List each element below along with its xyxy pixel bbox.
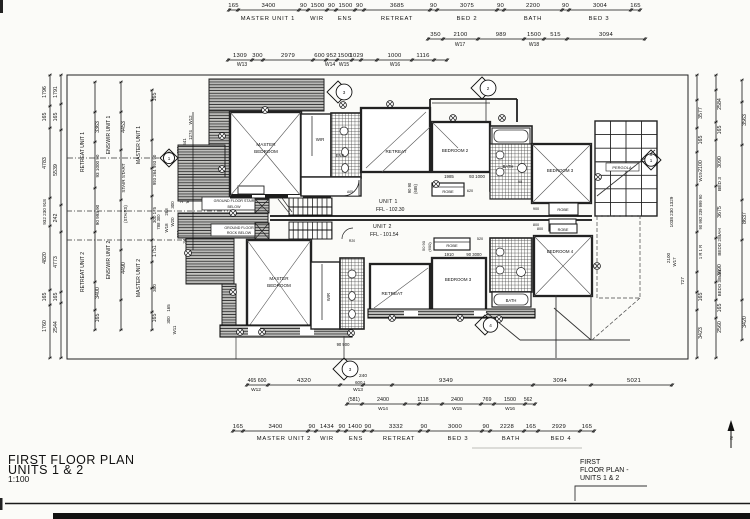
svg-text:BEDROOM: BEDROOM <box>254 149 278 154</box>
svg-text:FFL - 101.54: FFL - 101.54 <box>370 232 399 238</box>
svg-text:952: 952 <box>326 53 337 59</box>
svg-text:FIRST: FIRST <box>580 459 601 466</box>
symbol diamond 2 top <box>471 77 493 99</box>
svg-text:1309: 1309 <box>233 53 247 59</box>
stairwell upper run <box>289 198 332 215</box>
svg-text:288: 288 <box>164 208 169 216</box>
left dim line A <box>49 75 51 358</box>
svg-text:4783: 4783 <box>42 157 48 169</box>
hatch block A (left of master 1) <box>178 145 225 177</box>
svg-text:3094: 3094 <box>599 32 614 38</box>
svg-text:BEDROOM 3: BEDROOM 3 <box>547 168 574 173</box>
svg-text:MASTER: MASTER <box>256 142 276 147</box>
svg-text:165: 165 <box>53 113 59 122</box>
svg-text:90 993 90: 90 993 90 <box>95 204 100 225</box>
svg-text:165: 165 <box>42 293 48 302</box>
svg-text:RETREAT UNIT 2: RETREAT UNIT 2 <box>80 252 86 292</box>
svg-text:BATH: BATH <box>503 164 514 169</box>
site boundary <box>67 75 688 359</box>
room master bedroom 2 <box>247 240 311 329</box>
svg-text:FLOOR PLAN -: FLOOR PLAN - <box>580 467 629 474</box>
svg-text:(685): (685) <box>413 184 418 194</box>
dimension row top 1 <box>229 9 640 11</box>
svg-text:W12: W12 <box>251 387 261 393</box>
robe master1 <box>238 186 264 194</box>
room bed 2 <box>432 122 490 172</box>
right dim line A <box>696 75 698 358</box>
svg-text:N: N <box>729 436 734 439</box>
svg-text:W18: W18 <box>529 42 540 48</box>
svg-text:165: 165 <box>526 424 537 430</box>
svg-text:STAIR START: STAIR START <box>121 163 126 192</box>
svg-text:ROBE: ROBE <box>557 207 569 212</box>
svg-text:5021: 5021 <box>627 378 641 384</box>
svg-text:90: 90 <box>300 3 308 9</box>
svg-text:989: 989 <box>496 32 507 38</box>
robe unit2 <box>434 238 470 250</box>
svg-text:90: 90 <box>562 3 570 9</box>
svg-text:993 264 993 90: 993 264 993 90 <box>152 154 157 185</box>
svg-text:2100: 2100 <box>698 160 704 172</box>
svg-text:BEDROOM 3: BEDROOM 3 <box>445 277 472 282</box>
svg-text:BED 3: BED 3 <box>448 436 469 442</box>
svg-text:2: 2 <box>487 86 490 91</box>
room ENS 2 (tiled) <box>340 258 364 329</box>
svg-text:PERGOLA: PERGOLA <box>612 165 632 170</box>
svg-text:932 230 918: 932 230 918 <box>42 199 47 225</box>
pergola leader + symbol A1 <box>595 161 641 163</box>
svg-text:W17: W17 <box>672 257 677 267</box>
svg-text:1038 230 1329: 1038 230 1329 <box>669 196 674 227</box>
left dim line D <box>120 82 122 330</box>
pergola diagonal roof line <box>597 150 655 196</box>
svg-text:769: 769 <box>483 397 492 403</box>
svg-text:ENS: ENS <box>349 436 363 442</box>
svg-text:W12: W12 <box>188 115 193 125</box>
right dim line B <box>715 75 717 358</box>
bottom rule <box>5 503 750 505</box>
boundary dashed setback lines <box>67 210 228 212</box>
svg-text:3400: 3400 <box>261 3 276 9</box>
svg-text:2584: 2584 <box>717 98 723 110</box>
room WIR 1 <box>301 114 331 177</box>
left dim line E <box>151 90 153 330</box>
dimension row bottom 2 <box>347 403 535 405</box>
dimension row top 2 <box>428 38 645 40</box>
svg-text:4: 4 <box>489 323 492 328</box>
svg-text:90: 90 <box>497 3 505 9</box>
svg-text:90 90: 90 90 <box>407 182 412 193</box>
svg-text:1 R 1 R: 1 R 1 R <box>698 245 703 259</box>
dimension row bottom 1 <box>247 384 672 386</box>
svg-text:ENS/WIR UNIT 1: ENS/WIR UNIT 1 <box>106 116 112 155</box>
dimension row top 3 <box>228 59 447 61</box>
svg-text:165: 165 <box>233 424 244 430</box>
svg-text:90 992 239 999 90: 90 992 239 999 90 <box>698 194 703 230</box>
svg-text:1400: 1400 <box>348 424 363 430</box>
svg-text:(STAIRS): (STAIRS) <box>123 205 128 223</box>
svg-text:WIR: WIR <box>310 16 324 22</box>
symbol diamond CD4 <box>475 315 495 335</box>
svg-text:240: 240 <box>359 373 367 379</box>
room bath 1 (tiled) <box>490 126 532 191</box>
svg-text:90 3000: 90 3000 <box>466 252 482 257</box>
svg-text:165: 165 <box>630 3 641 9</box>
svg-text:W17: W17 <box>455 42 466 48</box>
svg-text:1985: 1985 <box>444 174 454 179</box>
svg-text:165: 165 <box>698 293 704 302</box>
svg-text:1500: 1500 <box>310 3 325 9</box>
svg-text:3075: 3075 <box>460 3 475 9</box>
svg-text:300: 300 <box>252 53 263 59</box>
left dim line B <box>60 75 62 358</box>
svg-text:50 90: 50 90 <box>421 240 426 251</box>
svg-text:W13: W13 <box>353 387 363 393</box>
svg-text:3420: 3420 <box>742 316 748 328</box>
svg-text:1791: 1791 <box>53 86 59 98</box>
svg-text:BATH: BATH <box>524 16 542 22</box>
svg-text:300: 300 <box>166 316 171 324</box>
svg-text:93 1000 90: 93 1000 90 <box>95 154 100 177</box>
robe boxes mid right <box>549 203 578 215</box>
hatch block C (below) <box>178 213 268 238</box>
svg-text:RETREAT: RETREAT <box>383 436 415 442</box>
svg-text:3675: 3675 <box>717 206 723 218</box>
svg-text:242: 242 <box>53 214 59 223</box>
room ENS 1 (tiled) <box>331 113 361 178</box>
svg-text:562: 562 <box>524 397 533 403</box>
unit2 south wall right part <box>368 309 535 318</box>
svg-text:1: 1 <box>650 158 653 163</box>
room retreat 2 <box>370 264 430 312</box>
svg-text:BED 3: BED 3 <box>717 177 723 191</box>
room bed 3 <box>532 144 591 203</box>
svg-text:UNIT 1: UNIT 1 <box>379 199 398 205</box>
svg-text:4773: 4773 <box>53 256 59 268</box>
svg-text:BED 3: BED 3 <box>589 16 610 22</box>
svg-text:300: 300 <box>170 201 175 209</box>
svg-text:RETREAT: RETREAT <box>381 16 413 22</box>
svg-text:165: 165 <box>698 136 704 145</box>
svg-text:90: 90 <box>356 3 364 9</box>
svg-text:3400: 3400 <box>95 287 101 299</box>
svg-text:1500: 1500 <box>527 32 542 38</box>
room master bedroom 1 <box>230 112 301 196</box>
robe 1 <box>432 183 464 196</box>
svg-text:9349: 9349 <box>439 378 453 384</box>
bottom black bar <box>53 513 750 519</box>
svg-text:UNIT 2: UNIT 2 <box>373 224 392 230</box>
svg-text:GROUND FLOOR STAIR: GROUND FLOOR STAIR <box>214 199 255 203</box>
room bed 4 <box>534 236 592 296</box>
svg-text:90: 90 <box>420 424 428 430</box>
svg-text:ENS: ENS <box>336 153 345 158</box>
pergola grid <box>595 121 657 216</box>
dashed roof outline right of bed4 <box>597 216 640 298</box>
svg-text:165: 165 <box>95 314 101 323</box>
svg-text:5539: 5539 <box>53 164 59 176</box>
svg-text:600: 600 <box>314 53 325 59</box>
svg-text:1434: 1434 <box>320 424 335 430</box>
hatch strip unit2 wall <box>222 284 236 330</box>
svg-text:4453: 4453 <box>121 121 127 133</box>
svg-text:W20: W20 <box>170 217 175 227</box>
left dim line C <box>94 82 96 330</box>
svg-text:800: 800 <box>537 227 543 231</box>
symbol diamond 3 top <box>327 81 349 103</box>
svg-text:1796: 1796 <box>42 86 48 98</box>
svg-text:3400: 3400 <box>268 424 283 430</box>
svg-text:2100: 2100 <box>666 252 671 263</box>
svg-text:350: 350 <box>430 32 441 38</box>
leader line to diamond A1 <box>67 157 159 159</box>
svg-text:90: 90 <box>482 424 490 430</box>
hall unit 1 with door <box>301 177 361 196</box>
svg-text:90: 90 <box>518 180 522 184</box>
svg-text:2228: 2228 <box>500 424 515 430</box>
svg-text:3363: 3363 <box>95 121 101 133</box>
note underline <box>575 486 647 501</box>
svg-text:1:100: 1:100 <box>8 474 30 484</box>
svg-text:165: 165 <box>42 113 48 122</box>
svg-text:1760: 1760 <box>42 320 48 332</box>
svg-text:1000: 1000 <box>387 53 402 59</box>
svg-text:A: A <box>650 152 653 157</box>
svg-text:4320: 4320 <box>297 378 312 384</box>
svg-text:2929: 2929 <box>552 424 566 430</box>
svg-text:ROBE: ROBE <box>446 243 458 248</box>
svg-text:165: 165 <box>717 126 723 135</box>
svg-text:W19: W19 <box>698 172 703 182</box>
roof diagonals bottom right <box>486 312 520 340</box>
svg-text:ENS: ENS <box>338 16 352 22</box>
svg-text:MASTER UNIT 2: MASTER UNIT 2 <box>136 259 142 297</box>
svg-text:465 600: 465 600 <box>248 378 267 384</box>
svg-text:GROUND FLOOR: GROUND FLOOR <box>224 226 254 230</box>
svg-text:515: 515 <box>550 32 561 38</box>
svg-text:165: 165 <box>582 424 593 430</box>
stair cupboard upper <box>255 199 269 213</box>
unit1 window circles <box>219 133 226 140</box>
svg-text:165: 165 <box>53 293 59 302</box>
svg-text:2100: 2100 <box>453 32 468 38</box>
room retreat 1 <box>361 108 430 172</box>
svg-text:RETREAT: RETREAT <box>385 149 406 154</box>
svg-text:900: 900 <box>533 207 539 211</box>
svg-text:3577: 3577 <box>698 107 704 119</box>
svg-text:BEDROOM: BEDROOM <box>267 283 291 288</box>
svg-text:W13: W13 <box>237 62 248 68</box>
right dim line C <box>741 80 743 340</box>
svg-text:727: 727 <box>680 277 685 285</box>
svg-text:2400: 2400 <box>451 397 463 403</box>
svg-text:520: 520 <box>477 237 483 241</box>
svg-text:4490: 4490 <box>121 262 127 274</box>
svg-text:1500: 1500 <box>504 397 516 403</box>
svg-text:165: 165 <box>166 304 171 312</box>
svg-text:3423: 3423 <box>698 327 704 339</box>
svg-text:165: 165 <box>228 3 239 9</box>
room bed 3 unit 2 <box>432 258 486 311</box>
svg-text:1118: 1118 <box>417 397 428 403</box>
edge marks <box>0 0 3 13</box>
hatch block unit2 left <box>186 239 234 284</box>
svg-text:ROBE: ROBE <box>558 228 569 232</box>
svg-text:MASTER UNIT 1: MASTER UNIT 1 <box>241 16 295 22</box>
symbol diamond 3 bottom <box>333 358 355 380</box>
svg-text:W11: W11 <box>172 325 177 334</box>
svg-text:93 1000: 93 1000 <box>469 174 485 179</box>
svg-text:R20: R20 <box>349 239 355 243</box>
north arrow <box>730 428 732 448</box>
svg-text:3000: 3000 <box>448 424 463 430</box>
svg-text:90: 90 <box>308 424 316 430</box>
svg-text:2560: 2560 <box>717 321 723 333</box>
stairwell lower run <box>289 222 332 239</box>
svg-text:W14: W14 <box>325 62 336 68</box>
svg-text:620: 620 <box>467 189 473 193</box>
svg-text:W16: W16 <box>390 62 401 68</box>
svg-text:4820: 4820 <box>42 252 48 264</box>
svg-text:90: 90 <box>364 424 372 430</box>
svg-text:WIR: WIR <box>320 436 334 442</box>
hall door lower <box>342 228 353 239</box>
svg-text:A: A <box>168 150 171 155</box>
svg-text:W15: W15 <box>339 62 350 68</box>
unit2 south wall thick <box>220 325 352 337</box>
dimension row bottom 3 <box>233 430 594 432</box>
svg-text:165: 165 <box>152 93 158 102</box>
svg-text:FFL - 102.30: FFL - 102.30 <box>376 207 405 213</box>
hatch block B (porch steps) <box>178 177 268 201</box>
svg-text:3094: 3094 <box>553 378 568 384</box>
svg-text:3332: 3332 <box>389 424 403 430</box>
svg-text:3090: 3090 <box>717 156 723 168</box>
svg-text:BEDD 2/BAH: BEDD 2/BAH <box>717 228 722 255</box>
svg-text:BED 4: BED 4 <box>551 436 572 442</box>
interior dim line x193 <box>192 112 194 250</box>
svg-text:788 300: 788 300 <box>156 214 161 230</box>
svg-text:W18: W18 <box>164 223 169 233</box>
svg-text:641: 641 <box>182 138 187 146</box>
unit2 window circles <box>237 329 244 336</box>
svg-text:90: 90 <box>338 424 346 430</box>
svg-text:(600): (600) <box>427 242 432 252</box>
ground floor stair below box <box>202 197 266 210</box>
svg-text:300: 300 <box>152 284 157 292</box>
svg-text:W14: W14 <box>378 406 388 412</box>
svg-text:3: 3 <box>343 90 346 95</box>
svg-text:ROBE: ROBE <box>442 189 454 194</box>
svg-text:ROCK BELOW: ROCK BELOW <box>227 231 252 235</box>
svg-text:3563: 3563 <box>742 114 748 126</box>
svg-text:MASTER: MASTER <box>269 276 289 281</box>
svg-text:2400: 2400 <box>377 397 389 403</box>
deck hatch left strip <box>209 111 230 177</box>
svg-text:BEDROOM 2: BEDROOM 2 <box>442 148 469 153</box>
svg-text:ENS/WIR UNIT 2: ENS/WIR UNIT 2 <box>106 241 112 280</box>
svg-text:165: 165 <box>152 314 158 323</box>
svg-text:1910: 1910 <box>444 252 454 257</box>
svg-text:W16: W16 <box>505 406 515 412</box>
svg-text:90 900: 90 900 <box>337 342 350 347</box>
svg-text:8637: 8637 <box>742 212 748 224</box>
svg-text:165: 165 <box>717 304 723 313</box>
deck hatch top-left <box>209 79 324 111</box>
svg-text:90: 90 <box>430 3 438 9</box>
svg-text:BATH: BATH <box>506 298 517 303</box>
svg-text:1: 1 <box>168 156 171 161</box>
svg-text:BATH: BATH <box>502 436 520 442</box>
svg-text:1029: 1029 <box>349 53 363 59</box>
unit divider wall <box>270 215 592 217</box>
svg-text:2200: 2200 <box>526 3 541 9</box>
svg-text:A05: A05 <box>347 190 353 194</box>
svg-text:MASTER UNIT 2: MASTER UNIT 2 <box>257 436 311 442</box>
svg-text:1500: 1500 <box>338 3 353 9</box>
faint smudge line <box>472 447 582 449</box>
symbol diamond A1 left <box>160 149 178 167</box>
stair cupboard lower <box>255 223 269 239</box>
room WIR 2 <box>311 262 340 329</box>
svg-text:BELOW: BELOW <box>228 205 242 209</box>
svg-text:(581): (581) <box>348 397 360 403</box>
room bath 2 (tiled) <box>490 238 532 292</box>
svg-text:BEDROOM 4: BEDROOM 4 <box>547 249 574 254</box>
svg-text:WIR: WIR <box>316 137 325 142</box>
svg-text:1274: 1274 <box>188 130 193 140</box>
svg-text:1116: 1116 <box>416 53 430 59</box>
svg-text:600 t: 600 t <box>355 380 366 385</box>
svg-text:RETREAT: RETREAT <box>381 291 402 296</box>
svg-text:3004: 3004 <box>593 3 608 9</box>
svg-text:BEDO 3/BAH: BEDO 3/BAH <box>717 270 722 296</box>
svg-text:3685: 3685 <box>390 3 405 9</box>
svg-text:W15: W15 <box>452 406 462 412</box>
svg-text:BED 2: BED 2 <box>457 16 478 22</box>
svg-text:UNITS 1 & 2: UNITS 1 & 2 <box>580 475 619 482</box>
svg-text:2979: 2979 <box>281 53 295 59</box>
svg-text:1751: 1751 <box>152 245 158 257</box>
ground floor rock below box <box>211 224 268 236</box>
svg-text:90: 90 <box>328 3 336 9</box>
svg-text:RETREAT UNIT 1: RETREAT UNIT 1 <box>80 132 86 172</box>
svg-text:2544: 2544 <box>53 321 59 333</box>
svg-text:WIR: WIR <box>326 293 331 301</box>
robe top right unit2 <box>550 224 577 233</box>
unit1 north wall step <box>429 99 431 108</box>
svg-text:3: 3 <box>349 367 352 372</box>
